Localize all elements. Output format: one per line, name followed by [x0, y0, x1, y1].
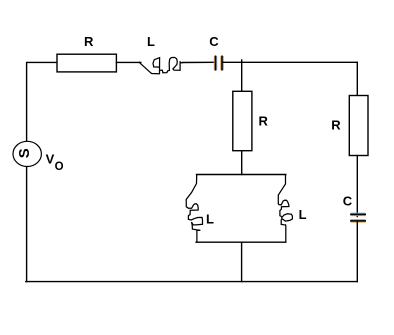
svg-text:C: C	[343, 193, 353, 208]
svg-text:R: R	[259, 114, 269, 129]
svg-text:S: S	[16, 148, 33, 158]
svg-text:R: R	[84, 34, 94, 49]
svg-text:C: C	[209, 34, 219, 49]
svg-text:L: L	[299, 207, 307, 222]
svg-text:L: L	[206, 211, 214, 226]
svg-text:L: L	[147, 34, 155, 49]
svg-text:O: O	[55, 161, 64, 173]
svg-text:V: V	[46, 151, 55, 166]
svg-text:R: R	[331, 118, 341, 133]
